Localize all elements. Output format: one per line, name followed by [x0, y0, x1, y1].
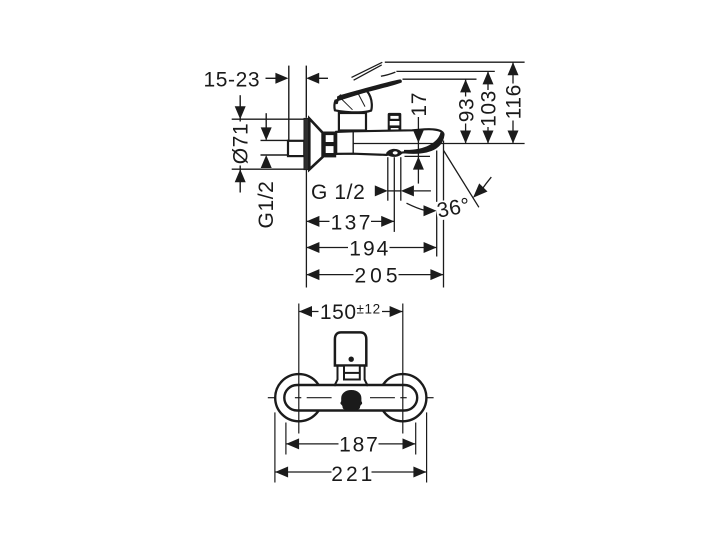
- handle pin dot: [349, 357, 354, 362]
- dimension 150 plus-minus 12: [299, 301, 403, 324]
- wire 187 right extension: [415, 423, 417, 455]
- raised lever phantom top edge: [352, 62, 383, 77]
- svg-text:±12: ±12: [357, 302, 381, 317]
- wire level line 103: [396, 70, 494, 72]
- lever handle hood: [334, 91, 371, 113]
- wire aerator right extension: [400, 157, 402, 201]
- wire left dimension extension line: [305, 170, 307, 288]
- svg-text:15-23: 15-23: [203, 69, 260, 92]
- dimension 17 aerator drop: [408, 92, 431, 184]
- dimension 137 to aerator center: [306, 212, 394, 235]
- wire 150 left extension through union center: [298, 304, 300, 434]
- left wall union escutcheon (front): [275, 374, 322, 421]
- svg-text:Ø71: Ø71: [230, 123, 253, 165]
- svg-text:G 1/2: G 1/2: [311, 181, 365, 204]
- pipe nipple S-union: [288, 141, 304, 156]
- wire diameter-71 bottom extension line: [232, 168, 306, 170]
- diverter knob (side view): [388, 113, 402, 131]
- wire aerator centerline: [393, 157, 395, 232]
- wire wall line: [288, 66, 290, 140]
- S-union connector nut: [323, 132, 337, 158]
- wire level line 116: [385, 61, 525, 63]
- lever blade: [337, 79, 402, 100]
- lever front curl: [335, 94, 341, 104]
- escutcheon wall flange face: [304, 118, 309, 169]
- raised lever phantom tip arc: [381, 72, 396, 76]
- dimension 93 lever height: [455, 79, 478, 143]
- dimension G 1/2 aerator thread: [311, 181, 431, 204]
- handle neck collar: [334, 366, 368, 387]
- raised lever phantom bottom edge: [354, 65, 382, 80]
- dimension 187: [286, 434, 415, 457]
- wire aerator left extension: [387, 157, 389, 201]
- wire 194 extension line: [436, 151, 438, 257]
- wire 150 right extension through union center: [402, 304, 404, 434]
- svg-text:205: 205: [354, 265, 401, 288]
- spout underside crescent: [404, 132, 443, 153]
- svg-text:187: 187: [339, 434, 379, 457]
- svg-text:17: 17: [408, 92, 431, 117]
- svg-text:137: 137: [331, 212, 373, 235]
- angle annotation 36 degrees: [434, 151, 491, 223]
- wire 221 right extension: [426, 412, 428, 482]
- dimension 103 raised lever height: [478, 71, 501, 143]
- wire pipe nipple top extension line: [261, 139, 289, 141]
- dimension 116 max height: [502, 62, 525, 143]
- aerator outlet: [386, 149, 403, 157]
- wire level line 93: [403, 78, 477, 80]
- mixer body and spout outline: [336, 129, 443, 155]
- svg-text:150: 150: [320, 301, 357, 324]
- svg-text:G1/2: G1/2: [255, 181, 278, 229]
- handle cartridge housing: [339, 113, 366, 131]
- dimension Ø71 escutcheon diameter: [230, 95, 253, 192]
- wire pipe nipple bottom extension line: [261, 154, 289, 156]
- svg-text:221: 221: [331, 463, 375, 486]
- wire horizontal centerline: [268, 397, 434, 399]
- svg-text:103: 103: [478, 90, 501, 127]
- svg-text:116: 116: [502, 84, 525, 119]
- right wall union escutcheon (front): [379, 374, 426, 421]
- wire 205 extension line: [443, 141, 445, 288]
- svg-text:194: 194: [349, 238, 390, 261]
- wire 187 left extension: [285, 423, 287, 455]
- escutcheon cone: [309, 119, 322, 170]
- dimension G1/2 supply connection: [255, 113, 278, 228]
- wire 221 left extension: [274, 412, 276, 482]
- diverter knob (front): [340, 390, 362, 410]
- wire body joint line: [352, 131, 354, 153]
- wire hood crease lines: [357, 91, 365, 107]
- wire aerator bottom extension: [405, 155, 431, 157]
- svg-text:36°: 36°: [435, 194, 472, 223]
- dimension 15-23 (wall to escutcheon): [203, 69, 328, 92]
- svg-text:93: 93: [455, 98, 478, 123]
- mixer body capsule (front): [284, 385, 417, 411]
- dimension 194 to spout underside: [306, 238, 436, 261]
- handle (front): [335, 332, 366, 365]
- wire outlet reference line: [353, 143, 524, 145]
- wire diameter-71 top extension line: [232, 118, 306, 120]
- leader arrow to spout end: [407, 203, 437, 216]
- wire escutcheon face extension line: [305, 66, 307, 118]
- dimension 221 overall width: [275, 463, 426, 486]
- dimension 205 total projection: [306, 265, 443, 288]
